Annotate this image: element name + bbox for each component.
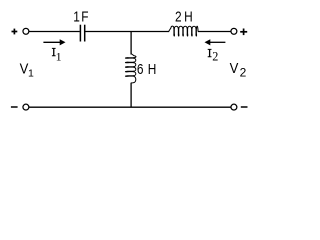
- svg-text:F: F: [81, 8, 88, 24]
- capacitor C 1 F: [80, 25, 84, 42]
- svg-text:2: 2: [175, 8, 182, 24]
- wire bottom: [29, 106, 231, 108]
- svg-text:H: H: [184, 8, 193, 24]
- svg-text:1: 1: [56, 49, 62, 63]
- terminal bottom-left: [23, 104, 29, 110]
- svg-text:1: 1: [28, 68, 34, 80]
- plus sign top-left: [12, 29, 18, 35]
- plus sign top-right: [240, 29, 247, 36]
- wire top-left segment: [29, 31, 80, 33]
- current arrow I1: [43, 39, 65, 45]
- svg-text:2: 2: [212, 50, 218, 64]
- terminal bottom-right: [231, 104, 237, 110]
- svg-text:6: 6: [137, 61, 144, 77]
- wire shunt upper: [130, 32, 132, 55]
- svg-text:2: 2: [240, 65, 247, 79]
- inductor 6 H: [125, 54, 136, 83]
- inductor 2 H: [169, 26, 198, 36]
- wire between capacitor and inductor 2H: [85, 31, 169, 33]
- label I2 current: [208, 49, 212, 57]
- current arrow I2: [205, 39, 226, 45]
- svg-text:1: 1: [73, 8, 80, 24]
- minus sign bottom-right: [241, 106, 248, 108]
- svg-text:V: V: [230, 59, 239, 76]
- terminal top-right: [231, 28, 237, 34]
- wire shunt lower: [130, 83, 132, 108]
- label I1 current: [52, 48, 56, 56]
- minus sign bottom-left: [11, 106, 18, 108]
- terminal top-left: [23, 28, 29, 34]
- wire top-right segment: [198, 31, 231, 33]
- svg-text:H: H: [148, 61, 157, 77]
